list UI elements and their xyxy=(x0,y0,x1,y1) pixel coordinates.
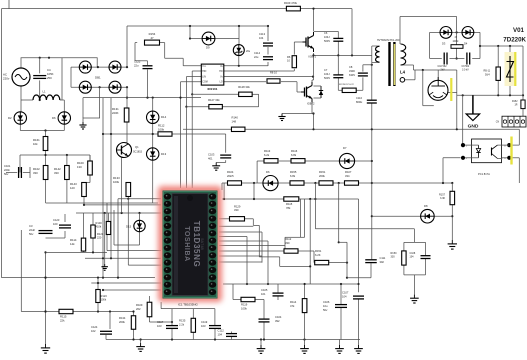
svg-text:6.8k: 6.8k xyxy=(291,153,297,157)
svg-text:GND: GND xyxy=(468,124,479,130)
svg-text:Q1: Q1 xyxy=(135,145,139,149)
svg-text:R114: R114 xyxy=(290,300,297,304)
svg-text:HVTRANS PK1-200: HVTRANS PK1-200 xyxy=(377,39,400,42)
svg-text:R8 10: R8 10 xyxy=(270,71,277,75)
svg-text:C6: C6 xyxy=(324,31,328,35)
svg-text:6.8k: 6.8k xyxy=(290,174,296,178)
svg-text:C122: C122 xyxy=(134,60,141,64)
svg-text:R121: R121 xyxy=(97,232,104,236)
svg-text:333K: 333K xyxy=(349,69,355,73)
svg-text:C111: C111 xyxy=(380,256,386,260)
svg-text:20k/5: 20k/5 xyxy=(227,174,234,178)
svg-text:220n: 220n xyxy=(4,168,10,172)
svg-text:3.0 kV: 3.0 kV xyxy=(462,69,469,72)
svg-text:6.2k: 6.2k xyxy=(264,153,270,157)
svg-text:22u: 22u xyxy=(134,64,139,68)
svg-text:R2 9W 1PG 22: R2 9W 1PG 22 xyxy=(339,84,354,86)
svg-text:22u: 22u xyxy=(254,55,259,59)
svg-text:R104: R104 xyxy=(227,170,234,174)
svg-text:50v: 50v xyxy=(4,172,9,176)
svg-text:800H: 800H xyxy=(356,100,362,104)
svg-text:120: 120 xyxy=(70,186,75,190)
svg-text:D6: D6 xyxy=(266,170,270,174)
svg-text:D13: D13 xyxy=(161,152,167,156)
svg-text:220: 220 xyxy=(97,236,102,240)
svg-text:SC1815: SC1815 xyxy=(133,151,143,154)
svg-text:HO: HO xyxy=(219,71,223,73)
svg-text:R112: R112 xyxy=(285,237,292,241)
svg-text:22uF: 22uF xyxy=(29,228,35,232)
svg-text:R140: R140 xyxy=(232,116,239,120)
svg-text:C104: C104 xyxy=(275,315,282,319)
svg-text:C114: C114 xyxy=(254,51,261,55)
svg-text:L4: L4 xyxy=(400,70,406,75)
svg-text:104J: 104J xyxy=(324,35,330,39)
svg-text:D6: D6 xyxy=(52,116,56,120)
svg-text:C119: C119 xyxy=(201,320,208,324)
svg-text:3.3K: 3.3K xyxy=(440,197,445,200)
svg-text:200k: 200k xyxy=(119,320,125,324)
svg-text:C7: C7 xyxy=(324,68,328,72)
svg-text:D9: D9 xyxy=(206,46,210,50)
svg-text:COM: COM xyxy=(202,82,207,84)
svg-text:IR2101: IR2101 xyxy=(208,87,218,91)
svg-text:R115: R115 xyxy=(286,202,293,206)
svg-text:220K: 220K xyxy=(112,111,119,115)
svg-text:R151: R151 xyxy=(319,170,326,174)
svg-text:C117: C117 xyxy=(157,320,164,324)
svg-text:102: 102 xyxy=(91,329,96,333)
svg-text:250: 250 xyxy=(47,76,52,80)
svg-text:IC1 TB1035NG: IC1 TB1035NG xyxy=(178,303,198,307)
svg-text:R6: R6 xyxy=(287,55,291,59)
svg-text:100k: 100k xyxy=(101,298,107,302)
svg-text:D15: D15 xyxy=(126,225,132,229)
svg-text:C123: C123 xyxy=(53,218,60,222)
svg-text:104: 104 xyxy=(218,333,223,337)
svg-text:C110: C110 xyxy=(356,96,363,100)
svg-text:C105: C105 xyxy=(261,288,268,292)
svg-text:78k: 78k xyxy=(286,206,291,210)
svg-text:C113: C113 xyxy=(259,32,266,36)
svg-text:50v: 50v xyxy=(29,232,34,236)
svg-text:R128 33k: R128 33k xyxy=(238,85,250,89)
svg-text:VS: VS xyxy=(220,76,223,78)
svg-text:330: 330 xyxy=(285,241,290,245)
svg-text:IGBT1: IGBT1 xyxy=(309,55,317,59)
svg-text:1R: 1R xyxy=(515,104,518,106)
svg-text:CN: CN xyxy=(496,121,500,123)
svg-text:500V: 500V xyxy=(324,76,330,80)
svg-text:104: 104 xyxy=(342,295,347,299)
svg-text:50v: 50v xyxy=(323,308,328,312)
svg-text:104J: 104J xyxy=(324,72,330,76)
svg-text:IGBT2: IGBT2 xyxy=(307,102,315,106)
svg-text:R151: R151 xyxy=(315,249,322,253)
svg-text:PC1 817A: PC1 817A xyxy=(478,172,490,176)
svg-text:C124: C124 xyxy=(91,325,98,329)
svg-text:R123: R123 xyxy=(101,294,108,298)
svg-text:D4: D4 xyxy=(464,42,468,46)
svg-text:334: 334 xyxy=(345,174,350,178)
svg-text:C3: C3 xyxy=(29,224,33,228)
svg-text:2kV: 2kV xyxy=(441,69,446,72)
svg-text:R169 470k: R169 470k xyxy=(284,1,298,5)
svg-text:2.2k: 2.2k xyxy=(179,323,185,327)
svg-text:104: 104 xyxy=(410,256,415,259)
svg-text:D3: D3 xyxy=(442,42,446,46)
svg-text:5A748: 5A748 xyxy=(200,238,205,250)
svg-text:V01: V01 xyxy=(513,27,525,34)
svg-text:R129: R129 xyxy=(234,205,241,209)
svg-text:10k: 10k xyxy=(33,142,38,146)
svg-text:410k: 410k xyxy=(96,225,102,229)
svg-text:392: 392 xyxy=(275,319,280,323)
svg-text:C107: C107 xyxy=(342,291,349,295)
svg-text:C112: C112 xyxy=(218,329,225,333)
svg-text:R135: R135 xyxy=(179,319,186,323)
svg-text:330: 330 xyxy=(391,256,396,259)
svg-text:47k: 47k xyxy=(290,304,295,308)
svg-text:R152: R152 xyxy=(512,101,518,103)
svg-text:20u: 20u xyxy=(246,50,251,53)
svg-text:100: 100 xyxy=(53,222,58,226)
svg-text:500V: 500V xyxy=(324,39,330,43)
svg-text:330: 330 xyxy=(234,208,239,212)
svg-text:630V: 630V xyxy=(349,73,355,77)
svg-text:10u: 10u xyxy=(323,304,328,308)
svg-text:TB1D35NG: TB1D35NG xyxy=(192,221,201,268)
svg-text:401: 401 xyxy=(208,157,213,161)
svg-text:R107: R107 xyxy=(345,170,352,174)
svg-text:R119: R119 xyxy=(241,303,248,307)
svg-text:R116: R116 xyxy=(291,149,298,153)
svg-text:7D220K: 7D220K xyxy=(503,37,526,44)
svg-text:D7: D7 xyxy=(343,146,347,150)
svg-text:L1: L1 xyxy=(42,90,46,94)
svg-text:103: 103 xyxy=(201,324,206,328)
svg-text:330: 330 xyxy=(54,171,59,175)
svg-text:LO: LO xyxy=(220,82,223,84)
svg-text:RB-11: RB-11 xyxy=(484,70,491,73)
svg-text:R155: R155 xyxy=(290,170,297,174)
svg-text:22k: 22k xyxy=(60,319,65,323)
svg-text:103: 103 xyxy=(157,324,162,328)
svg-text:TOSHIBA: TOSHIBA xyxy=(183,226,190,262)
svg-text:392: 392 xyxy=(380,260,385,264)
svg-text:100M: 100M xyxy=(453,41,459,43)
svg-text:C101: C101 xyxy=(4,164,11,168)
svg-text:47: 47 xyxy=(150,36,154,40)
svg-text:101: 101 xyxy=(261,292,266,296)
svg-text:104: 104 xyxy=(259,36,264,40)
svg-text:R127 33k: R127 33k xyxy=(208,98,220,102)
svg-text:100k: 100k xyxy=(241,307,247,311)
svg-text:220v: 220v xyxy=(3,77,10,81)
svg-text:148: 148 xyxy=(232,119,237,123)
svg-text:LIN: LIN xyxy=(202,76,206,78)
svg-text:R113: R113 xyxy=(264,149,271,153)
svg-text:D2: D2 xyxy=(8,116,12,120)
svg-text:200k: 200k xyxy=(319,174,325,178)
svg-text:262: 262 xyxy=(136,307,141,311)
svg-text:C106: C106 xyxy=(323,300,330,304)
svg-text:100k: 100k xyxy=(113,180,120,184)
svg-text:C8: C8 xyxy=(349,65,353,69)
svg-text:D8: D8 xyxy=(424,204,428,208)
svg-text:VB: VB xyxy=(220,66,223,68)
svg-text:14k: 14k xyxy=(70,242,75,246)
svg-text:330: 330 xyxy=(33,171,38,175)
svg-text:R109: R109 xyxy=(136,303,143,307)
svg-text:50/4: 50/4 xyxy=(485,74,490,77)
svg-text:100k: 100k xyxy=(158,128,165,132)
svg-text:R134: R134 xyxy=(119,316,126,320)
svg-text:D14: D14 xyxy=(161,115,167,119)
svg-text:C103: C103 xyxy=(208,153,215,157)
svg-text:HIN: HIN xyxy=(202,71,206,73)
svg-text:130: 130 xyxy=(77,165,82,169)
svg-text:6.2K: 6.2K xyxy=(315,253,321,257)
svg-text:DB1: DB1 xyxy=(95,76,101,80)
svg-text:R130: R130 xyxy=(96,221,103,225)
